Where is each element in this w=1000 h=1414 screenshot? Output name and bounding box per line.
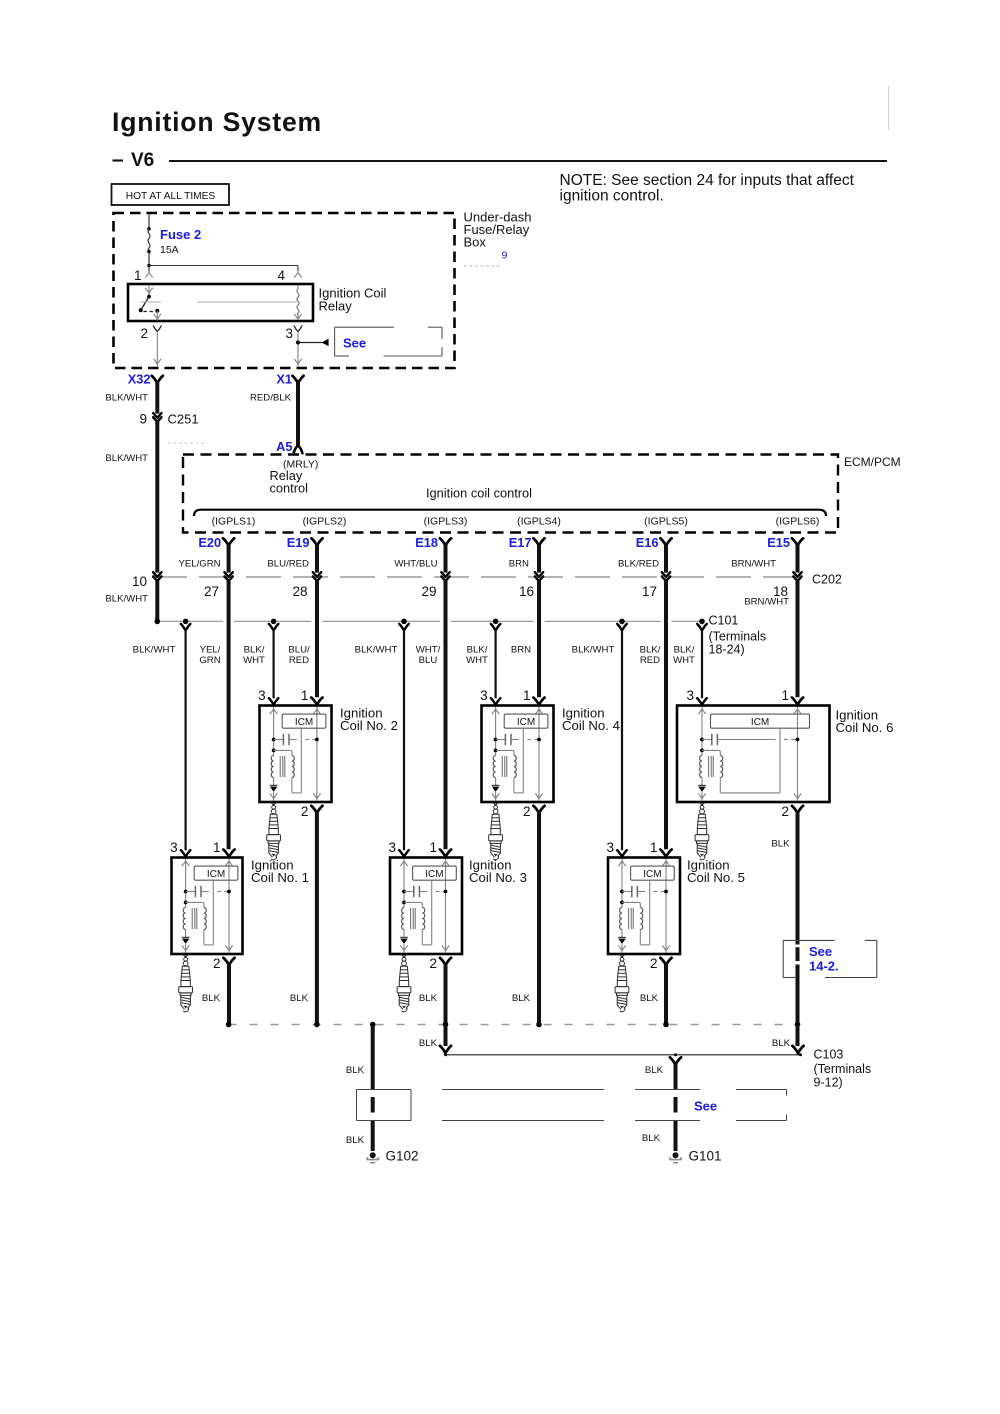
- spark plug: [179, 956, 193, 1012]
- svg-text:BLK/WHT: BLK/WHT: [105, 393, 148, 404]
- node + branch BLK/WHT drop at x=185.6: [183, 619, 189, 625]
- wire winding to diode: [273, 778, 275, 786]
- wire YEL/GRN from E20 to C202: [227, 545, 231, 573]
- pin 2 connector: [660, 958, 671, 965]
- wire: relay pin 2 down: [156, 332, 158, 367]
- svg-text:BLK/WHT: BLK/WHT: [572, 645, 615, 656]
- wire BLK at x=539.0: [537, 812, 541, 1025]
- junction node to pin 4 branch: [147, 264, 151, 268]
- ICM output lead: [212, 880, 214, 945]
- ICM module: [711, 714, 810, 728]
- svg-text:1: 1: [523, 688, 531, 703]
- svg-text:E17: E17: [509, 535, 532, 550]
- svg-text:BLK/WHT: BLK/WHT: [105, 594, 148, 605]
- svg-text:3: 3: [258, 688, 266, 703]
- wire: relay pin 3 down: [297, 332, 299, 367]
- ignition coil No. 1 box: [172, 858, 243, 955]
- spark plug connector: [492, 802, 499, 805]
- svg-text:2: 2: [523, 804, 531, 819]
- ignition coil No. 5 box: [608, 858, 680, 955]
- svg-text:BLK/: BLK/: [244, 645, 265, 656]
- svg-text:BLK/WHT: BLK/WHT: [355, 645, 398, 656]
- svg-text:3: 3: [480, 688, 488, 703]
- node + branch BLK/WHT drop at x=702.0: [699, 619, 705, 625]
- wire BLK to G101: [674, 1064, 678, 1090]
- wire diode to pin: [185, 944, 187, 952]
- pin 1 connector: [533, 698, 544, 705]
- svg-text:(Terminals: (Terminals: [709, 630, 767, 644]
- relay internal: pin1 lead with arrow: [148, 286, 150, 297]
- svg-text:ignition control.: ignition control.: [560, 188, 664, 205]
- ICM output lead: [649, 880, 651, 945]
- C202 pin 27: [224, 572, 232, 581]
- svg-text:Ignition System: Ignition System: [112, 107, 322, 137]
- svg-text:X1: X1: [276, 372, 292, 387]
- relay pin 1 entry chevron: [145, 273, 152, 278]
- wire BRN/WHT C202 down to ignition coil: [796, 581, 800, 697]
- wire winding to diode: [621, 930, 623, 938]
- transformer secondary winding: [640, 908, 642, 930]
- relay internal: pin2 lead with arrow: [156, 311, 158, 321]
- svg-text:ICM: ICM: [295, 717, 313, 728]
- svg-text:ICM: ICM: [643, 869, 661, 880]
- wire diode to pin: [701, 792, 703, 800]
- svg-text:BLK: BLK: [642, 1133, 661, 1144]
- pin 2 connector: [311, 806, 322, 813]
- transformer core: [279, 756, 281, 777]
- wire BLK/WHT from X32: [155, 382, 159, 414]
- pin 2 connector: [533, 806, 544, 813]
- internal lead pin1: [445, 859, 447, 953]
- transformer secondary tap: [620, 901, 624, 905]
- svg-text:RED: RED: [289, 655, 309, 666]
- svg-text:YEL/GRN: YEL/GRN: [178, 559, 220, 570]
- ground bus node: [663, 1022, 669, 1028]
- svg-text:2: 2: [140, 326, 148, 341]
- svg-text:3: 3: [285, 326, 293, 341]
- capacitor: [272, 738, 276, 742]
- svg-text:1: 1: [134, 268, 142, 283]
- svg-text:3: 3: [170, 840, 178, 855]
- wire BLK at x=445.5: [444, 964, 448, 1025]
- ground G102: [366, 1152, 379, 1162]
- pin 1 connector: [440, 850, 451, 857]
- ignition coil No. 1 assembly: [170, 840, 309, 1012]
- heading rule: [169, 160, 887, 162]
- capacitor: [184, 890, 188, 894]
- svg-text:2: 2: [781, 804, 789, 819]
- transformer secondary winding: [292, 756, 294, 778]
- transformer core: [501, 756, 503, 777]
- wire WHT/BLU from E18 to C202: [444, 545, 448, 573]
- svg-text:1: 1: [650, 840, 658, 855]
- C202 pin 18: [793, 572, 801, 581]
- relay coil winding: [297, 286, 299, 290]
- internal lead pin3: [273, 707, 275, 756]
- svg-text:BLK: BLK: [346, 1065, 365, 1076]
- ignition coil No. 4 assembly: [480, 688, 620, 860]
- wire YEL/GRN C202 down to ignition coil: [227, 581, 231, 849]
- transformer core: [191, 908, 193, 929]
- pin 1 connector: [660, 850, 671, 857]
- svg-text:Fuse 2: Fuse 2: [160, 227, 201, 242]
- svg-text:control: control: [270, 481, 308, 496]
- wire BLK bus to G102: [371, 1025, 375, 1090]
- connector to G101 leg: [674, 1053, 677, 1056]
- wire: branch to relay pin 4: [149, 265, 298, 267]
- svg-text:NOTE: See section 24 for input: NOTE: See section 24 for inputs that aff…: [560, 172, 855, 189]
- svg-text:ICM: ICM: [207, 869, 225, 880]
- wire diode to pin: [621, 944, 623, 952]
- wire winding to diode: [403, 930, 405, 938]
- ground G101: [669, 1152, 682, 1162]
- svg-text:Coil No. 4: Coil No. 4: [562, 718, 620, 733]
- internal lead pin3: [621, 859, 623, 908]
- connector C103 left: [440, 1046, 451, 1053]
- wire BLK at x=666.0: [664, 964, 668, 1025]
- wire BLK/WHT C202 to C101 bus: [155, 581, 159, 621]
- diode: [618, 937, 626, 939]
- svg-text:(IGPLS4): (IGPLS4): [517, 516, 561, 528]
- svg-text:BLU/RED: BLU/RED: [267, 559, 309, 570]
- svg-text:ECM/PCM: ECM/PCM: [844, 455, 901, 469]
- transformer secondary winding: [514, 756, 516, 778]
- ICM module: [631, 866, 675, 880]
- ground bus (dashed): [229, 1024, 798, 1026]
- ignition coil No. 3 box: [390, 858, 462, 955]
- V6 section heading: [113, 159, 124, 161]
- svg-text:(IGPLS5): (IGPLS5): [644, 516, 688, 528]
- transformer primary winding: [402, 908, 404, 930]
- grouping bracket: [194, 510, 826, 516]
- spark plug connector: [699, 802, 706, 805]
- svg-text:GRN: GRN: [199, 655, 220, 666]
- ICM output lead: [431, 880, 433, 945]
- C202 pin 28: [313, 572, 321, 581]
- svg-text:Coil No. 3: Coil No. 3: [469, 870, 527, 885]
- svg-text:Coil No. 2: Coil No. 2: [340, 718, 398, 733]
- wire BLU/RED C202 down to ignition coil: [315, 581, 319, 697]
- transformer secondary winding: [204, 908, 206, 930]
- wire BLK at x=229.0: [227, 964, 231, 1025]
- svg-text:C251: C251: [168, 412, 199, 427]
- wire winding to diode: [701, 778, 703, 786]
- wire WHT/BLU C202 down to ignition coil: [444, 581, 448, 849]
- ignition coil No. 6 assembly: [677, 688, 893, 860]
- wire BLK/RED from E16 to C202: [664, 545, 668, 573]
- svg-text:BRN/WHT: BRN/WHT: [744, 597, 789, 608]
- wire BLK/RED C202 down to ignition coil: [664, 581, 668, 849]
- transformer primary winding: [183, 908, 185, 930]
- svg-text:(IGPLS2): (IGPLS2): [303, 516, 347, 528]
- spark plug: [489, 804, 503, 860]
- svg-text:G102: G102: [386, 1149, 419, 1164]
- relay switch contact: [147, 295, 151, 299]
- svg-text:BLU: BLU: [419, 655, 438, 666]
- pin 2 connector: [223, 958, 234, 965]
- svg-text:BLU/: BLU/: [288, 645, 310, 656]
- svg-text:1: 1: [781, 688, 789, 703]
- capacitor: [620, 890, 624, 894]
- pin 3 connector: [697, 698, 707, 705]
- svg-text:BLK/: BLK/: [674, 645, 695, 656]
- ground bus node: [795, 1022, 801, 1028]
- spark plug connector: [270, 802, 277, 805]
- pin 2 connector: [792, 806, 803, 813]
- svg-text:27: 27: [204, 584, 219, 599]
- svg-text:2: 2: [650, 956, 658, 971]
- svg-text:(IGPLS3): (IGPLS3): [424, 516, 468, 528]
- ground bus node: [536, 1022, 542, 1028]
- relay pin 2 connector: [153, 326, 161, 332]
- svg-text:ICM: ICM: [751, 717, 769, 728]
- C202 pin 16: [535, 572, 543, 581]
- spark plug connector: [182, 954, 189, 957]
- node: bus start: [155, 619, 161, 625]
- ICM output lead: [300, 728, 302, 793]
- wire diode to pin: [273, 792, 275, 800]
- whited-out see box over ground wires: [357, 1089, 412, 1091]
- relay mechanical link line: [141, 301, 162, 303]
- diode: [492, 785, 500, 787]
- ground bus node: [314, 1022, 320, 1028]
- internal lead pin3: [185, 859, 187, 908]
- ignition coil No. 2 assembly: [258, 688, 398, 860]
- svg-text:WHT/: WHT/: [416, 645, 441, 656]
- svg-text:A5: A5: [276, 439, 292, 454]
- svg-text:BLK: BLK: [202, 993, 221, 1004]
- connector C202 (dashed line): [152, 576, 795, 578]
- under-dash fuse/relay box (dashed): [114, 213, 455, 368]
- diode: [270, 785, 278, 787]
- transformer secondary tap: [184, 901, 188, 905]
- svg-text:(IGPLS6): (IGPLS6): [776, 516, 820, 528]
- pin 3 connector: [181, 850, 191, 857]
- ignition coil No. 2 box: [260, 706, 332, 803]
- pin 1 connector: [311, 698, 322, 705]
- C101 bus line (BLK/WHT distribution): [157, 620, 223, 622]
- ignition coil No. 3 assembly: [388, 840, 526, 1012]
- svg-text:C101: C101: [709, 614, 739, 628]
- wire BRN/WHT from E15 to C202: [796, 545, 800, 573]
- svg-text:BLK: BLK: [290, 993, 309, 1004]
- svg-text:ICM: ICM: [425, 869, 443, 880]
- svg-text:9-12): 9-12): [814, 1076, 843, 1090]
- svg-text:BLK/WHT: BLK/WHT: [133, 645, 176, 656]
- svg-text:E15: E15: [767, 535, 790, 550]
- svg-text:BLK: BLK: [772, 1038, 791, 1049]
- svg-text:E20: E20: [198, 535, 221, 550]
- svg-text:See: See: [809, 944, 832, 959]
- internal lead pin1: [797, 707, 799, 801]
- spark plug connector: [619, 954, 626, 957]
- C103 link wire: [446, 1054, 801, 1056]
- svg-text:2: 2: [301, 804, 309, 819]
- svg-text:C103: C103: [814, 1048, 844, 1062]
- wire: feed into fuse 2: [148, 215, 150, 230]
- wire BLK coil6 pin2 (crosses see box): [796, 812, 800, 945]
- pin 2 connector: [440, 958, 451, 965]
- internal lead pin1: [228, 859, 230, 953]
- svg-text:10: 10: [132, 574, 147, 589]
- transformer secondary tap: [494, 749, 498, 753]
- pin 1 connector: [792, 698, 803, 705]
- node + branch BLK/WHT drop at x=404.0: [401, 619, 407, 625]
- ICM output lead: [522, 728, 524, 793]
- svg-text:3: 3: [388, 840, 396, 855]
- svg-text:Box: Box: [464, 235, 487, 250]
- diode: [698, 785, 706, 787]
- fuse 2: [147, 227, 151, 231]
- wire RED/BLK from X1 to A5: [296, 382, 300, 446]
- svg-text:Coil No. 1: Coil No. 1: [251, 870, 309, 885]
- svg-text:E18: E18: [415, 535, 438, 550]
- spark plug: [695, 804, 709, 860]
- wire diode to pin: [403, 944, 405, 952]
- wire: fuse to relay pin 1: [148, 252, 150, 272]
- svg-text:HOT AT ALL TIMES: HOT AT ALL TIMES: [126, 191, 216, 202]
- wire diode to pin: [495, 792, 497, 800]
- svg-text:BLK/WHT: BLK/WHT: [105, 453, 148, 464]
- wire BLK coil3 stub to C103: [444, 1025, 448, 1047]
- faded link remnant: [464, 265, 501, 267]
- internal lead pin3: [701, 707, 703, 756]
- svg-text:BLK: BLK: [771, 839, 790, 850]
- internal lead pin3: [403, 859, 405, 908]
- svg-text:RED: RED: [640, 655, 660, 666]
- svg-text:15A: 15A: [160, 244, 179, 256]
- transformer secondary winding: [720, 756, 722, 778]
- diode: [182, 937, 190, 939]
- wire winding to diode: [185, 930, 187, 938]
- faint page artifact line: [888, 86, 890, 130]
- ignition coil No. 5 assembly: [606, 840, 744, 1012]
- internal lead pin1: [538, 707, 540, 801]
- node + branch BLK/WHT drop at x=622.0: [619, 619, 625, 625]
- pin 3 connector: [491, 698, 501, 705]
- svg-text:1: 1: [429, 840, 437, 855]
- node + branch BLK/WHT drop at x=273.6: [271, 619, 277, 625]
- internal lead pin1: [316, 707, 318, 801]
- wire BRN C202 down to ignition coil: [537, 581, 541, 697]
- svg-text:G101: G101: [689, 1149, 722, 1164]
- wire BLU/RED from E19 to C202: [315, 545, 319, 573]
- capacitor: [402, 890, 406, 894]
- svg-text:9: 9: [139, 412, 147, 427]
- svg-text:(IGPLS1): (IGPLS1): [212, 516, 256, 528]
- transformer core: [708, 756, 710, 777]
- svg-text:WHT: WHT: [466, 655, 488, 666]
- spark plug: [397, 956, 411, 1012]
- capacitor: [700, 738, 704, 742]
- diode: [400, 937, 408, 939]
- svg-text:18-24): 18-24): [709, 643, 745, 657]
- pin 1 connector: [223, 850, 234, 857]
- svg-text:E19: E19: [287, 535, 310, 550]
- svg-text:2: 2: [213, 956, 221, 971]
- svg-text:X32: X32: [128, 372, 151, 387]
- transformer core: [628, 908, 630, 929]
- C202 pin 29: [441, 572, 449, 581]
- svg-text:BLK/: BLK/: [640, 645, 661, 656]
- svg-text:BLK: BLK: [640, 993, 659, 1004]
- svg-text:ICM: ICM: [517, 717, 535, 728]
- pin 3 connector: [399, 850, 409, 857]
- svg-text:Ignition coil control: Ignition coil control: [426, 486, 532, 501]
- transformer primary winding: [271, 756, 273, 778]
- ICM output lead: [779, 728, 781, 793]
- spark plug connector: [401, 954, 408, 957]
- svg-text:WHT/BLU: WHT/BLU: [394, 559, 437, 570]
- svg-text:WHT: WHT: [243, 655, 265, 666]
- relay pin 3 connector: [294, 326, 302, 332]
- svg-text:16: 16: [519, 584, 534, 599]
- svg-text:1: 1: [301, 688, 309, 703]
- svg-text:3: 3: [606, 840, 614, 855]
- transformer core: [410, 908, 412, 929]
- pin 3 connector: [617, 850, 627, 857]
- svg-text:V6: V6: [131, 150, 154, 171]
- svg-text:(Terminals: (Terminals: [814, 1062, 872, 1076]
- svg-text:BLK: BLK: [512, 993, 531, 1004]
- svg-text:BRN: BRN: [509, 559, 529, 570]
- transformer secondary tap: [402, 901, 406, 905]
- faded link remnant under C251: [168, 442, 207, 444]
- svg-text:BRN: BRN: [511, 645, 531, 656]
- svg-text:1: 1: [213, 840, 221, 855]
- transformer secondary winding: [422, 908, 424, 930]
- connector C103 right: [796, 1025, 800, 1047]
- svg-text:YEL/: YEL/: [200, 645, 221, 656]
- svg-text:9: 9: [502, 250, 508, 262]
- spark plug: [615, 956, 629, 1012]
- svg-text:BLK: BLK: [419, 993, 438, 1004]
- relay actuator dashed link: [144, 311, 155, 313]
- svg-text:Coil No. 6: Coil No. 6: [836, 720, 894, 735]
- pin 3 connector: [269, 698, 279, 705]
- transformer primary winding: [493, 756, 495, 778]
- svg-text:28: 28: [292, 584, 307, 599]
- ground bus node: [443, 1022, 449, 1028]
- wire BLK at x=316.9: [315, 812, 319, 1025]
- capacitor: [494, 738, 498, 742]
- ECM/PCM box (dashed): [183, 455, 838, 533]
- transformer primary winding: [700, 756, 702, 778]
- internal lead pin1: [665, 859, 667, 953]
- ground bus node: [226, 1022, 232, 1028]
- svg-text:BLK: BLK: [419, 1038, 438, 1049]
- transformer secondary tap: [700, 749, 704, 753]
- svg-text:See: See: [694, 1099, 717, 1114]
- svg-text:4: 4: [277, 268, 285, 283]
- ICM module: [194, 866, 238, 880]
- ignition coil No. 4 box: [482, 706, 554, 803]
- svg-text:3: 3: [686, 688, 694, 703]
- svg-text:C202: C202: [812, 573, 842, 587]
- svg-text:BLK: BLK: [346, 1135, 365, 1146]
- svg-text:BLK/RED: BLK/RED: [618, 559, 659, 570]
- wire BRN from E17 to C202: [537, 545, 541, 573]
- ICM module: [504, 714, 548, 728]
- svg-text:WHT: WHT: [673, 655, 695, 666]
- svg-text:RED/BLK: RED/BLK: [250, 393, 292, 404]
- ICM module: [413, 866, 457, 880]
- HOT AT ALL TIMES box: [112, 184, 230, 205]
- see 14-2 reference box: [782, 940, 784, 977]
- svg-text:14-2.: 14-2.: [809, 959, 839, 974]
- svg-text:2: 2: [429, 956, 437, 971]
- svg-text:BLK: BLK: [645, 1065, 664, 1076]
